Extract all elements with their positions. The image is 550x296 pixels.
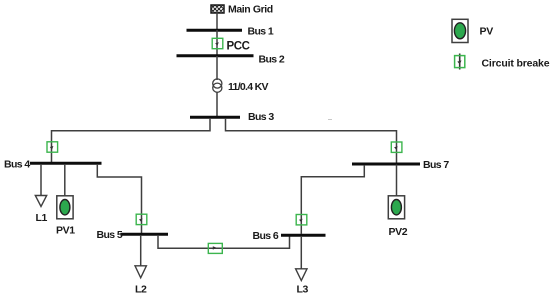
- svg-text:PCC: PCC: [227, 41, 250, 53]
- svg-text:PV1: PV1: [56, 225, 75, 237]
- circuit breaker Bus3-Bus4: [47, 142, 58, 152]
- bus Bus 7: [352, 163, 420, 166]
- bus Bus 3: [190, 116, 240, 119]
- svg-text:Bus 2: Bus 2: [259, 54, 285, 66]
- svg-text:Bus 6: Bus 6: [253, 230, 279, 242]
- PV source PV1: [57, 196, 73, 219]
- bus Bus 6: [281, 234, 326, 237]
- svg-text:PV: PV: [480, 26, 494, 38]
- faint artifact dash: [328, 119, 332, 121]
- bus Bus 4: [30, 162, 102, 165]
- svg-text:L2: L2: [135, 284, 147, 296]
- svg-text:Bus 5: Bus 5: [97, 229, 123, 241]
- wire Bus 1 to Bus 2: [216, 30, 218, 56]
- main grid symbol: [211, 5, 224, 13]
- transformer T1 11/0.4 KV: [213, 79, 222, 92]
- legend PV symbol: [452, 19, 468, 42]
- svg-text:Main Grid: Main Grid: [228, 4, 273, 16]
- wire Bus 7 to PV2: [396, 165, 398, 197]
- svg-text:L1: L1: [36, 212, 48, 224]
- wire Bus 4 to L1: [40, 164, 42, 196]
- svg-text:Bus 1: Bus 1: [248, 26, 274, 38]
- load L3 arrow: [296, 269, 307, 281]
- wire grid to Bus 1: [216, 13, 218, 30]
- circuit breaker Bus7-Bus6: [296, 215, 307, 225]
- wire Bus 5 to Bus 6 tie: [158, 235, 290, 248]
- wire Bus 7 to Bus 6: [301, 165, 364, 234]
- bus Bus 2: [177, 54, 254, 57]
- svg-text:Bus 4: Bus 4: [4, 159, 30, 171]
- svg-text:Circuit breaker: Circuit breaker: [482, 58, 550, 70]
- load L1 arrow: [35, 196, 46, 207]
- wire Bus 3 to Bus 7 feeder: [226, 118, 397, 163]
- PV source PV2: [388, 196, 404, 219]
- svg-text:11/0.4 KV: 11/0.4 KV: [228, 81, 269, 93]
- circuit breaker Bus3-Bus7: [391, 142, 402, 152]
- wire Bus 2 to transformer: [216, 56, 218, 80]
- svg-text:PV2: PV2: [389, 226, 408, 238]
- wire Bus 4 to PV1: [64, 164, 66, 196]
- wire Bus 4 to Bus 5: [97, 164, 141, 234]
- circuit breaker tie Bus5-Bus6: [208, 243, 222, 253]
- svg-text:L3: L3: [297, 284, 309, 296]
- wire Bus 3 to Bus 4 feeder: [52, 118, 211, 163]
- svg-text:Bus 7: Bus 7: [423, 159, 449, 171]
- circuit breaker PCC: [212, 38, 223, 48]
- wire transformer to Bus 3: [216, 92, 218, 117]
- wire Bus 6 to L3: [300, 236, 302, 269]
- load L2 arrow: [135, 266, 146, 278]
- svg-text:Bus 3: Bus 3: [248, 111, 274, 123]
- bus Bus 5: [121, 233, 169, 236]
- wire Bus 5 to L2: [140, 235, 142, 266]
- bus Bus 1: [187, 29, 243, 32]
- circuit breaker Bus4-Bus5: [136, 214, 147, 224]
- legend circuit breaker symbol: [455, 54, 465, 70]
